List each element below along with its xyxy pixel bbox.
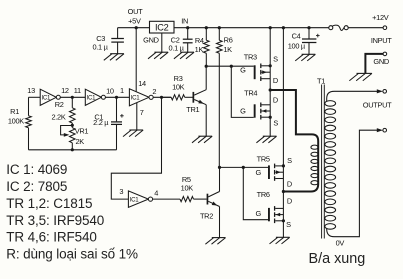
svg-text:10K: 10K <box>181 183 194 192</box>
svg-text:1: 1 <box>120 86 124 95</box>
wire fuse to +12V terminal <box>348 27 383 29</box>
svg-text:C4: C4 <box>292 31 301 40</box>
wire +12V bus left segment <box>118 27 150 29</box>
node drain junction B <box>282 190 285 193</box>
node C4 top <box>307 26 310 29</box>
svg-text:2K: 2K <box>75 137 84 146</box>
ground (TR2) <box>212 237 226 239</box>
node drain junction A <box>269 88 272 91</box>
fuse F1 <box>329 26 333 30</box>
resistor R2 <box>71 97 73 108</box>
ground (TR4) <box>263 135 277 137</box>
node R2/VR1 <box>71 124 74 127</box>
wire IC2 ground pin <box>161 33 163 52</box>
transformer T1 primary winding <box>311 145 318 149</box>
op-amp U1C inverter IC1 1-2 <box>129 89 149 106</box>
svg-text:12: 12 <box>61 86 69 95</box>
node chain A top <box>269 26 272 29</box>
svg-text:3: 3 <box>119 187 123 196</box>
svg-text:T1: T1 <box>317 77 325 86</box>
svg-text:IN: IN <box>181 16 188 25</box>
ground (TR6) <box>276 236 290 238</box>
svg-text:D: D <box>287 180 292 189</box>
resistor R1 <box>28 97 30 115</box>
wire TR2 collector <box>219 167 221 191</box>
svg-text:TR2: TR2 <box>200 212 213 221</box>
svg-text:1K: 1K <box>195 45 204 54</box>
svg-text:13: 13 <box>27 86 35 95</box>
capacitor C2 <box>187 28 189 39</box>
capacitor C1 <box>116 97 118 121</box>
svg-text:R2: R2 <box>55 100 64 109</box>
svg-text:TR 4,6: IRF540: TR 4,6: IRF540 <box>6 229 97 244</box>
svg-text:TR 1,2: C1815: TR 1,2: C1815 <box>6 196 92 211</box>
transistor TR2 <box>207 194 209 205</box>
svg-text:TR4: TR4 <box>244 88 257 97</box>
wire pin 14 VDD <box>135 28 137 92</box>
svg-text:2.2 µ: 2.2 µ <box>93 118 109 127</box>
svg-text:+5V: +5V <box>128 16 141 25</box>
svg-text:0.1 µ: 0.1 µ <box>92 43 108 52</box>
node R4 top <box>205 26 208 29</box>
wire 2 to R3 <box>153 96 171 98</box>
wire TR1 collector <box>205 66 207 90</box>
node inv2 output <box>115 96 118 99</box>
svg-text:14: 14 <box>138 79 146 88</box>
wire gate line A <box>206 65 254 67</box>
transistor TR6 IRF540 <box>268 208 270 221</box>
node R4/TR1 collector <box>205 65 208 68</box>
svg-text:+12V: +12V <box>372 13 389 22</box>
svg-text:100 µ: 100 µ <box>288 41 306 50</box>
resistor R4 <box>205 28 207 41</box>
node rail/VR1 bottom <box>71 148 74 151</box>
svg-text:R: dùng loại sai số 1%: R: dùng loại sai số 1% <box>6 246 138 261</box>
terminal OUTPUT2 <box>383 128 387 132</box>
svg-text:OUTPUT: OUTPUT <box>363 101 392 110</box>
svg-text:D: D <box>273 96 278 105</box>
svg-text:IC 1: 4069: IC 1: 4069 <box>6 162 67 177</box>
op-amp U1D inverter IC1 3-4 <box>128 191 148 207</box>
svg-text:C3: C3 <box>96 34 105 43</box>
wire gate bracket B <box>243 167 268 219</box>
wire 10 to 1 <box>105 96 129 98</box>
wire TR1 emitter <box>205 105 207 137</box>
node +5V <box>135 26 138 29</box>
node R6 top <box>218 26 221 29</box>
svg-text:G: G <box>255 209 261 218</box>
svg-text:0.1 µ: 0.1 µ <box>169 44 185 53</box>
ground (IC2) <box>154 51 168 53</box>
transformer T1 core <box>321 85 323 239</box>
svg-text:D: D <box>287 196 292 205</box>
svg-text:100K: 100K <box>8 117 24 126</box>
IC2 regulator 7805 <box>150 21 175 33</box>
transistor TR1 <box>193 92 195 103</box>
ground (input) <box>357 72 372 74</box>
svg-text:S: S <box>286 220 291 229</box>
svg-text:S: S <box>273 55 278 64</box>
svg-text:VR1: VR1 <box>75 126 89 135</box>
svg-text:S: S <box>287 156 292 165</box>
svg-text:TR5: TR5 <box>257 154 270 163</box>
svg-text:10: 10 <box>106 87 114 96</box>
svg-text:G: G <box>255 168 261 177</box>
svg-text:GND: GND <box>143 36 159 45</box>
arrow OUTPUT1 <box>377 89 383 93</box>
svg-text:IC1: IC1 <box>87 95 96 102</box>
ground (C3) <box>110 53 124 55</box>
svg-text:10K: 10K <box>172 82 185 91</box>
node gate bracket A <box>230 65 233 68</box>
svg-text:0V: 0V <box>336 238 345 247</box>
transformer T1 secondary winding <box>325 101 336 107</box>
svg-text:IC1: IC1 <box>130 196 139 203</box>
capacitor C4 <box>308 28 310 39</box>
svg-text:D: D <box>273 76 278 85</box>
node C2 top <box>186 26 189 29</box>
wire secondary top to OUTPUT1 <box>327 91 378 101</box>
svg-text:IC2: IC2 <box>155 23 169 33</box>
ground (C4) <box>302 53 316 55</box>
svg-text:1K: 1K <box>223 45 232 54</box>
node chain B top <box>282 26 285 29</box>
wire GND terminal <box>365 54 383 74</box>
node gate bracket B <box>242 166 245 169</box>
svg-text:R1: R1 <box>10 107 19 116</box>
svg-text:GND: GND <box>373 57 389 66</box>
wire +12V bus to fuse <box>174 27 329 29</box>
wire gate bracket A <box>231 66 253 117</box>
wire secondary bottom to OUTPUT2 <box>327 130 378 237</box>
resistor R5 <box>153 198 180 200</box>
svg-text:TR3: TR3 <box>244 53 257 62</box>
potentiometer VR1 <box>70 128 76 143</box>
wire 12 to 11 <box>60 96 85 98</box>
ground (C2) <box>180 51 194 53</box>
terminal OUTPUT1 <box>383 90 387 94</box>
transistor TR3 IRF9540 <box>254 65 256 79</box>
wire feedback rail <box>29 149 117 151</box>
svg-text:G: G <box>240 66 246 75</box>
op-amp U1A inverter IC1 13-12 <box>40 89 56 105</box>
resistor R3 <box>162 96 172 98</box>
node inv3 output <box>160 96 163 99</box>
node R6/TR2 collector <box>218 166 221 169</box>
wire gate line B <box>220 166 269 168</box>
svg-text:TR1: TR1 <box>186 105 199 114</box>
svg-text:INPUT: INPUT <box>371 36 392 45</box>
wire TR2 emitter <box>219 207 221 238</box>
capacitor C3 <box>117 28 119 39</box>
svg-text:2.2K: 2.2K <box>51 112 65 121</box>
svg-text:11: 11 <box>74 86 81 95</box>
wire chain B vertical <box>282 28 284 238</box>
wire pin13 <box>29 96 41 98</box>
svg-text:2: 2 <box>152 87 156 96</box>
plus sign (C1) <box>120 115 124 117</box>
node inv1 output <box>71 96 74 99</box>
svg-text:7: 7 <box>140 108 144 117</box>
svg-text:B/a xung: B/a xung <box>309 251 366 267</box>
svg-text:IC1: IC1 <box>42 95 51 102</box>
svg-text:TR6: TR6 <box>257 190 270 199</box>
op-amp U1B inverter IC1 11-10 <box>85 89 101 105</box>
svg-text:OUT: OUT <box>128 7 143 16</box>
wire pin 7 VSS <box>136 103 138 130</box>
svg-text:IC1: IC1 <box>131 95 140 102</box>
terminal +12V <box>383 26 387 30</box>
terminal GND <box>383 52 387 56</box>
ground (IC1 pin7) <box>129 129 143 131</box>
ground (TR1) <box>198 135 212 137</box>
transistor TR5 IRF9540 <box>268 165 270 179</box>
svg-text:G: G <box>240 107 246 116</box>
svg-text:TR 3,5: IRF9540: TR 3,5: IRF9540 <box>6 213 104 228</box>
svg-text:R6: R6 <box>224 36 233 45</box>
resistor R6 <box>218 28 220 41</box>
svg-text:IC 2: 7805: IC 2: 7805 <box>6 179 67 194</box>
arrow OUTPUT2 <box>377 128 383 132</box>
plus sign (C4) <box>316 35 320 37</box>
transistor TR4 IRF540 <box>254 104 256 117</box>
wire inv3 out down <box>111 97 161 199</box>
wire drain A to primary top <box>270 90 318 192</box>
wire R6 bottom to gate line B <box>218 53 220 167</box>
svg-text:S: S <box>273 119 278 128</box>
wiper VR1 <box>61 126 73 135</box>
svg-text:4: 4 <box>154 189 158 198</box>
wire chain A vertical <box>269 28 271 137</box>
